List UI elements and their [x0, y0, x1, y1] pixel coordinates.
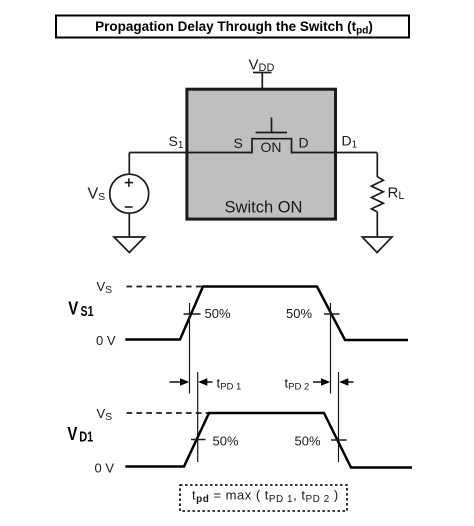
tick 50% rising VD1 [191, 439, 206, 441]
vertical marker VS1 falling [330, 303, 332, 394]
svg-text:S: S [234, 135, 243, 151]
source VS [88, 174, 149, 213]
title box [56, 16, 409, 38]
wire VDD to switch box [261, 73, 263, 91]
arrow tPD2 left [313, 378, 330, 385]
switch gate stub [271, 118, 273, 133]
arrow tPD1 right [198, 378, 212, 385]
svg-text:D1: D1 [79, 430, 93, 446]
svg-text:50%: 50% [295, 434, 321, 449]
switch gate bar [256, 132, 288, 134]
wire S1 node through switch channel to D1 node [129, 139, 377, 153]
vertical marker VD1 rising [197, 372, 199, 462]
ground (right) [362, 237, 392, 253]
power VDD label [249, 57, 275, 75]
svg-text:Propagation Delay Through the: Propagation Delay Through the Switch (tp… [95, 19, 373, 37]
svg-text:50%: 50% [213, 434, 239, 449]
svg-text:S1: S1 [81, 304, 94, 320]
wire S1 down to source VS [128, 153, 130, 176]
wire RL to ground [376, 212, 378, 237]
svg-text:0 V: 0 V [96, 333, 116, 348]
waveform VS1 [125, 287, 408, 341]
resistor RL [371, 177, 404, 212]
wire VS to ground [128, 213, 130, 237]
arrow tPD2 right [339, 378, 353, 385]
vertical marker VS1 rising [189, 303, 191, 394]
svg-text:ON: ON [261, 139, 282, 155]
svg-text:Switch ON: Switch ON [225, 199, 303, 217]
tick 50% rising VS1 [184, 313, 201, 315]
vertical marker VD1 falling [338, 372, 340, 462]
svg-text:V: V [67, 424, 77, 444]
svg-text:D: D [299, 135, 309, 151]
svg-text:V: V [68, 299, 78, 319]
dashed VS level line (waveform VD1) [127, 412, 210, 414]
arrow tPD1 left [170, 378, 190, 385]
formula box tpd = max(tPD1, tPD2) [180, 485, 347, 511]
wire D1 to resistor RL [376, 153, 378, 178]
switch box (Switch ON) [187, 89, 336, 219]
dashed VS level line (waveform VS1) [127, 286, 204, 288]
svg-text:0 V: 0 V [95, 461, 115, 476]
svg-text:50%: 50% [205, 306, 231, 321]
svg-text:50%: 50% [286, 306, 312, 321]
waveform VD1 [125, 413, 412, 468]
ground (left) [114, 237, 145, 253]
tick 50% falling VD1 [331, 439, 347, 441]
tick 50% falling VS1 [324, 313, 340, 315]
